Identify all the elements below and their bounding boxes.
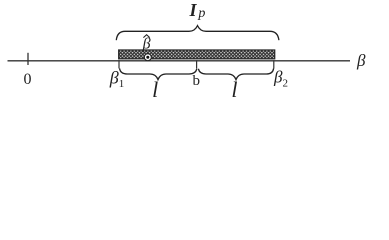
svg-text:0: 0 [24, 71, 32, 88]
svg-text:β2: β2 [273, 68, 288, 90]
number line axis [8, 60, 351, 62]
svg-text:β: β [142, 36, 151, 53]
underbrace l right [198, 69, 273, 80]
interval rectangle (crosshatched) [119, 50, 275, 59]
tick b [196, 60, 198, 68]
svg-text:l: l [152, 77, 158, 102]
svg-text:b: b [193, 73, 201, 89]
label beta-hat [142, 35, 151, 53]
svg-text:l: l [231, 77, 237, 102]
underbrace l left [120, 69, 197, 80]
tick beta2 [273, 60, 275, 68]
svg-text:Ip: Ip [189, 0, 206, 21]
svg-text:β1: β1 [109, 67, 124, 90]
tick beta1 [118, 60, 120, 68]
tick 0 [27, 53, 29, 65]
overbrace Ip [116, 26, 279, 41]
point beta-hat marker (circled dot) [144, 54, 151, 61]
svg-text:β: β [356, 51, 366, 70]
